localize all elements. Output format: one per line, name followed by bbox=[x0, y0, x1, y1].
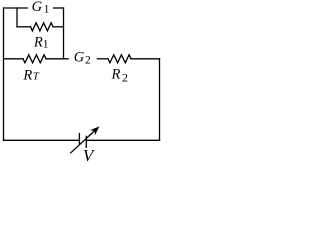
svg-text:G: G bbox=[32, 0, 43, 15]
wire left rail bbox=[3, 8, 5, 140]
battery V right plate bbox=[85, 136, 87, 147]
svg-text:T: T bbox=[33, 72, 40, 83]
svg-text:2: 2 bbox=[85, 55, 91, 67]
wire top right segment (G1 branch) bbox=[54, 7, 64, 9]
wire G2 to R2 bbox=[98, 58, 109, 60]
wire right vertical of parallel block bbox=[63, 8, 65, 59]
wire junction drop at node A bbox=[16, 8, 18, 27]
wire R1 branch right bbox=[53, 26, 64, 28]
wire R1 branch left bbox=[17, 26, 31, 28]
battery V left plate bbox=[78, 134, 80, 145]
resistor R1 bbox=[31, 23, 54, 31]
wire right rail bbox=[159, 59, 161, 141]
wire bottom left bbox=[4, 139, 80, 141]
wire middle row left bbox=[4, 58, 24, 60]
battery V variable arrow shaft bbox=[70, 130, 95, 153]
svg-text:R: R bbox=[33, 34, 43, 50]
svg-text:1: 1 bbox=[44, 3, 50, 15]
wire bottom right bbox=[86, 139, 159, 141]
svg-text:2: 2 bbox=[122, 70, 128, 84]
svg-text:R: R bbox=[111, 66, 121, 82]
svg-text:G: G bbox=[74, 49, 85, 65]
wire top left segment bbox=[4, 7, 28, 9]
svg-text:V: V bbox=[83, 146, 96, 165]
svg-text:R: R bbox=[22, 67, 32, 83]
wire RT to node G2 bbox=[46, 58, 68, 60]
resistor R2 bbox=[108, 55, 131, 63]
battery V arrowhead bbox=[91, 127, 98, 134]
wire R2 to right rail bbox=[131, 58, 160, 60]
resistor RT bbox=[23, 55, 46, 63]
svg-text:1: 1 bbox=[43, 38, 49, 50]
